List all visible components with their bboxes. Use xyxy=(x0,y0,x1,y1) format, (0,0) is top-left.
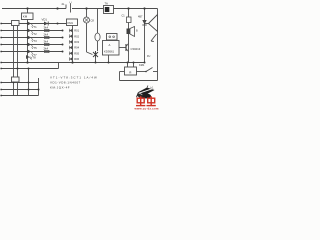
svg-text:2L: 2L xyxy=(62,2,66,6)
svg-text:VT5: VT5 xyxy=(32,46,38,50)
svg-text:R06: R06 xyxy=(74,57,79,61)
svg-text:2k4: 2k4 xyxy=(44,33,49,37)
svg-text:R03: R03 xyxy=(74,40,79,44)
svg-text:TA: TA xyxy=(105,2,109,6)
svg-text:CS9013: CS9013 xyxy=(131,47,141,51)
svg-text:VT1: VT1 xyxy=(32,25,38,29)
svg-text:VT3: VT3 xyxy=(32,39,38,43)
svg-text:2k4: 2k4 xyxy=(44,47,49,51)
svg-text:VD1-VD8:1N4007: VD1-VD8:1N4007 xyxy=(50,81,81,85)
svg-text:3k4: 3k4 xyxy=(44,26,49,30)
svg-text:C8: C8 xyxy=(91,19,95,23)
svg-text:KM1: KM1 xyxy=(68,21,74,25)
svg-text:U: U xyxy=(70,1,72,5)
svg-text:R02: R02 xyxy=(74,34,79,38)
svg-text:3k4: 3k4 xyxy=(44,40,49,44)
svg-text:VT8: VT8 xyxy=(31,56,37,60)
svg-text:www.cc-dz.com: www.cc-dz.com xyxy=(134,106,159,110)
svg-text:KM:JQX-4F: KM:JQX-4F xyxy=(50,86,70,90)
svg-text:KD9561: KD9561 xyxy=(104,50,115,54)
svg-text:FU: FU xyxy=(147,55,151,58)
svg-text:KM: KM xyxy=(23,15,28,19)
svg-text:R05: R05 xyxy=(74,51,79,55)
svg-text:k1: k1 xyxy=(151,86,154,90)
svg-text:VT1-VT8:3CT1 1A/4W: VT1-VT8:3CT1 1A/4W xyxy=(50,76,98,80)
svg-text:VD1: VD1 xyxy=(42,18,48,22)
svg-text:KM1: KM1 xyxy=(139,63,145,67)
svg-text:R04: R04 xyxy=(74,46,79,50)
svg-text:A: A xyxy=(109,43,111,47)
svg-text:VT2: VT2 xyxy=(32,32,38,36)
svg-text:R01: R01 xyxy=(74,29,79,33)
svg-text:4B7: 4B7 xyxy=(138,16,143,19)
